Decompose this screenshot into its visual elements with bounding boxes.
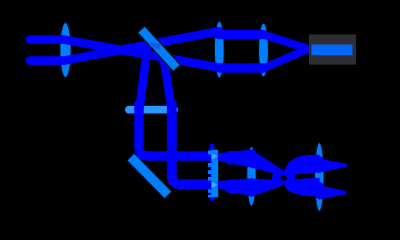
beam telescope parallel bottom [219,63,264,72]
beam focus to L5 upper [284,155,320,175]
beam splitter BS (drawn over beams) [137,26,180,72]
beam exit tip upper [343,163,347,167]
mirror M1 (drawn under beams) [127,153,172,199]
beam vertical left [139,104,210,156]
beam exit tip lower [342,190,346,194]
beam cone slit1 to L4 [219,150,252,166]
beam smudge on splitter (reflected) [146,50,147,60]
lens L4 [247,147,257,207]
beam L1 to L2 crossing (ascending) [64,31,219,60]
beam bulge at L5 upper [313,156,325,173]
lens L1 [60,22,71,77]
focused wedge lower in strip [211,182,218,188]
beam vertical right [172,104,210,184]
beam bulge at L5 lower [313,182,325,199]
beam smudge on splitter (transmitted) [150,45,161,47]
beam cone slit2 to L4 [219,179,252,196]
lens L3 [259,23,269,77]
beam bulge slit1-L4 [231,151,240,165]
pinhole array dark backing [210,144,215,202]
lens L6 horizontal [125,105,179,114]
beam bulge at L4 upper [245,149,257,167]
beam splitter reflected left down [139,50,147,110]
beam L4 to focus upper [252,150,284,175]
pinhole array tooth 4 [208,177,212,181]
detector stripe [312,45,353,56]
focused wedge upper in strip [211,154,218,160]
beam telescope parallel top [219,30,264,39]
beam bulge at L4 lower [245,178,257,196]
focus gap below (black V) [278,183,289,195]
beam converging to box lower [264,50,306,68]
pinhole array tooth 3 [208,170,212,174]
focus pinhole (black) [280,175,286,181]
lens L5 [315,143,325,212]
pinhole array tooth 1 [208,151,212,155]
pinhole array tooth 6 [208,195,212,198]
beam L1 to L2 crossing (descending) [64,40,219,68]
focus blob [272,170,296,185]
beam converging to box upper [264,35,306,48]
beam L4 to focus lower [252,179,284,196]
beam exit cone upper [319,160,345,172]
focus gap above (black V) [278,161,289,173]
pinhole array tooth 5 [208,189,212,192]
pinhole array strip [211,150,218,198]
pinhole array tooth 2 [208,163,212,167]
beam input top [30,35,64,44]
lens L2 [214,21,224,78]
beam input bottom [30,56,64,65]
beam focus to L5 lower [284,179,320,196]
beam exit cone lower [319,186,344,199]
beam splitter reflected right down [164,57,172,110]
detector box [309,34,356,64]
beam bulge slit2-L4 [231,180,240,194]
